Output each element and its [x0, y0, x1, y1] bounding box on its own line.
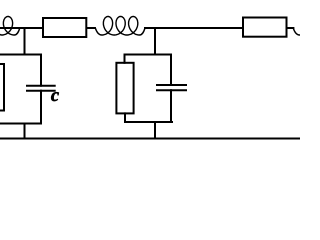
node A junction: wire dropping from top rail to shunt RC block 1	[24, 28, 26, 55]
capacitor C2 top plate	[157, 84, 186, 86]
wire: top bus of shunt RC block 2	[125, 54, 172, 56]
label c (value of capacitor C1)	[51, 92, 59, 101]
inductor L3 (series coil, cut off at right edge)	[293, 28, 309, 35]
inductor L1 (series coil, partially cut off at left edge)	[0, 17, 20, 36]
capacitor C2 bottom plate	[157, 89, 186, 91]
resistor R4 (shunt, vertical box)	[116, 63, 133, 114]
wire: bottom bus of shunt RC block 1	[0, 123, 41, 125]
wire: bottom lead of capacitor C1	[40, 91, 42, 124]
resistor R2 (series, horizontal box)	[243, 18, 287, 37]
capacitor C1 top plate	[27, 85, 55, 87]
resistor R1 (series, horizontal box)	[43, 18, 86, 37]
wire: top lead of capacitor C1	[40, 55, 42, 86]
resistor R3 (shunt, vertical box, partially cut off at left edge)	[0, 64, 4, 111]
wire: top lead of capacitor C2	[170, 55, 172, 86]
node B junction: wire dropping from top rail to shunt RC block 2	[154, 28, 156, 55]
wire: top lead of resistor R4	[124, 55, 126, 63]
wire: bottom lead of resistor R4	[124, 113, 126, 122]
capacitor C1 bottom plate	[27, 90, 55, 92]
wire: bottom bus of shunt RC block 2	[125, 121, 172, 123]
wire: RC block 2 down to ground rail	[154, 122, 156, 139]
inductor L2 (series coil, three loops)	[95, 17, 145, 36]
wire: R2 to L3	[287, 27, 294, 29]
wire: top bus of shunt RC block 1	[0, 54, 41, 56]
wire: R1 to L2	[87, 27, 95, 29]
wire: bottom lead of capacitor C2	[170, 90, 172, 122]
wire: RC block 1 down to ground rail	[24, 124, 26, 139]
wire top rail: L2 to R2	[145, 27, 243, 29]
wire top rail: L1 to R1	[0, 27, 43, 29]
ground rail (bottom return conductor)	[0, 138, 300, 140]
